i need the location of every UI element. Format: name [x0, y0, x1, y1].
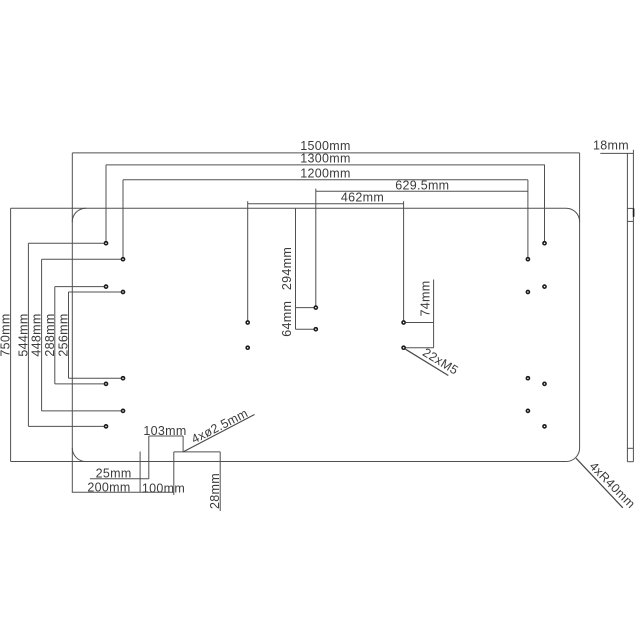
svg-text:4xR40mm: 4xR40mm — [587, 459, 638, 511]
hole left outer row4 — [104, 424, 109, 429]
hole right inner row1 — [526, 257, 531, 262]
dim 256mm — [69, 292, 122, 378]
dim 200mm — [72, 448, 174, 493]
svg-text:1200mm: 1200mm — [300, 167, 350, 181]
dim 1200mm — [123, 180, 528, 257]
svg-text:629.5mm: 629.5mm — [395, 179, 449, 193]
hole mid-left bottom — [245, 345, 250, 350]
svg-text:4xø2.5mm: 4xø2.5mm — [189, 406, 250, 446]
hole right outer row2 — [542, 284, 547, 289]
hole left inner row1 — [121, 257, 126, 262]
leader 4x2.5mm — [183, 415, 254, 452]
dim 103mm — [149, 436, 183, 479]
svg-text:288mm: 288mm — [43, 313, 57, 356]
dim 629.5mm — [316, 189, 528, 306]
hole right inner row4 — [526, 409, 531, 414]
dim 64mm — [296, 328, 314, 330]
hole left inner row4 — [121, 409, 126, 414]
svg-text:544mm: 544mm — [17, 313, 31, 356]
svg-text:18mm: 18mm — [593, 138, 629, 152]
dim 544mm — [28, 243, 104, 426]
svg-text:1300mm: 1300mm — [300, 151, 350, 165]
dim 74mm — [406, 280, 434, 348]
hole center top — [313, 305, 318, 310]
hole mid-right top — [401, 320, 406, 325]
svg-text:462mm: 462mm — [341, 190, 384, 204]
hole left outer row1 — [104, 241, 109, 246]
svg-text:448mm: 448mm — [30, 313, 44, 356]
dim 18mm — [600, 150, 633, 154]
side view — [627, 153, 633, 461]
hole left outer row2 — [104, 284, 109, 289]
hole left inner row3 — [121, 376, 126, 381]
svg-text:28mm: 28mm — [208, 473, 222, 509]
svg-text:103mm: 103mm — [143, 424, 186, 438]
svg-text:750mm: 750mm — [0, 313, 13, 356]
dim 25mm — [90, 452, 149, 493]
hole left inner row2 — [121, 290, 126, 295]
leader 4xR40mm — [576, 458, 623, 508]
hole right outer row4 — [542, 424, 547, 429]
notch outline — [174, 452, 220, 511]
dim 288mm — [55, 287, 104, 384]
svg-text:256mm: 256mm — [57, 313, 71, 356]
svg-text:294mm: 294mm — [280, 247, 294, 290]
hole mid-left top — [245, 320, 250, 325]
hole left outer row3 — [104, 382, 109, 387]
svg-text:200mm: 200mm — [87, 480, 130, 494]
hole mid-right bottom — [401, 345, 406, 350]
svg-text:74mm: 74mm — [418, 281, 432, 317]
hole right outer row3 — [542, 382, 547, 387]
dim 448mm — [42, 259, 121, 411]
leader 22xM5 — [405, 349, 448, 375]
plate outline — [72, 208, 579, 461]
svg-text:25mm: 25mm — [96, 467, 132, 481]
dim 1300mm — [106, 165, 545, 241]
hole center bottom — [313, 327, 318, 332]
dim 750mm — [11, 208, 87, 461]
dim 462mm — [248, 201, 404, 320]
svg-text:100mm: 100mm — [142, 482, 185, 496]
hole right outer row1 — [542, 241, 547, 246]
dim 1500mm — [72, 153, 579, 222]
hole right inner row3 — [526, 376, 531, 381]
hole right inner row2 — [526, 290, 531, 295]
dim 294mm — [296, 208, 314, 329]
svg-text:64mm: 64mm — [280, 301, 294, 337]
